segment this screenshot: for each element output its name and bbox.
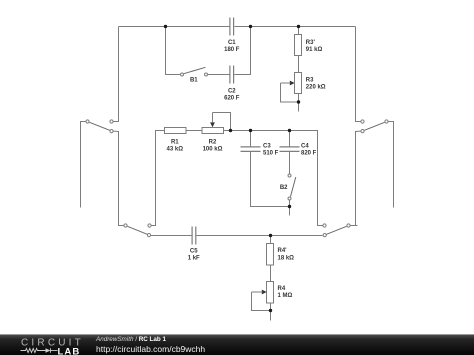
potentiometer R2 [202,113,231,134]
switch B1 [181,67,208,76]
wire bottom rail C5 to right pole [196,235,322,237]
capacitor C3 [241,147,261,152]
wire bottom rail pole to C5 [151,235,192,237]
wire B2 bottom stub [289,200,291,215]
resistor R4' [267,244,274,266]
footer line 2 [96,345,205,354]
wire R4' drop [270,236,272,244]
wire between R4' and R4 [270,265,272,282]
switch B2 [288,174,296,200]
capacitor C2 [230,66,234,84]
wire R4 bottom stub [270,303,272,321]
CircuitLab logo [19,336,85,355]
capacitor C4 [280,147,300,152]
wire top rail left of C1 [119,26,230,28]
label C2 [224,89,240,102]
wire C3 top lead [250,131,252,147]
switch S-lower-right [323,224,350,237]
junction dots [164,25,300,312]
svg-text:R3: R3 [306,77,314,83]
label R4' [278,248,295,261]
capacitor C5 [192,227,196,245]
switch S-upper-right [361,120,388,133]
svg-text:620 F: 620 F [224,96,240,102]
label R1 [167,140,184,153]
node bottom rail / R4' drop [269,234,272,237]
svg-text:R2: R2 [209,140,217,146]
wire between R3' and R3 [298,56,300,73]
node C4 top [288,129,291,132]
label R4 [278,286,293,299]
svg-text:C1: C1 [228,40,236,46]
svg-text:B1: B1 [190,78,198,84]
node R3 wiper junction [297,100,300,103]
svg-text:C4: C4 [301,144,309,150]
svg-text:91 kΩ: 91 kΩ [306,47,323,53]
wire from S-upper-right lower throw down [356,131,361,225]
resistor R3' [295,35,302,56]
svg-text:1 kF: 1 kF [188,256,200,262]
label C3 [263,144,279,157]
wire B1 to C2 [208,74,230,76]
svg-text:LAB: LAB [58,346,81,355]
potentiometer R4 [252,282,274,311]
wire S-lower-right upper throw jog [351,225,356,227]
label C4 [301,144,317,157]
wire C4 to B2 [289,152,291,174]
label C1 [224,40,240,53]
svg-text:43 kΩ: 43 kΩ [167,147,184,153]
svg-text:18 kΩ: 18 kΩ [278,255,295,261]
wire left rail pole to dangling end [81,122,86,208]
svg-text:180 F: 180 F [224,47,240,53]
svg-text:220 kΩ: 220 kΩ [306,84,326,90]
node top rail / C2 riser [249,25,252,28]
svg-text:C2: C2 [228,89,236,95]
footer bar [0,334,474,355]
label R2 [203,140,223,153]
wire left rail down from top [114,27,119,122]
node R2 wiper junction [229,129,232,132]
svg-text:R3': R3' [306,40,316,46]
svg-text:510 F: 510 F [263,151,279,157]
labels [167,40,326,299]
wire R3' drop [298,27,300,35]
wire R2 to right corner [224,131,323,226]
wire top rail right of C1 [235,26,356,28]
svg-text:R4': R4' [278,248,288,254]
wire right rail pole to dangling end [389,122,394,208]
wire B1 drop from top rail [166,27,181,75]
switch S-lower-left [124,224,151,237]
svg-text:R1: R1 [171,140,179,146]
wire R1 to R2 [186,130,202,132]
wire C2 right side up to top rail [234,27,250,75]
wire C4 top lead [289,131,291,147]
svg-text:C5: C5 [190,249,198,255]
resistor R1 [165,128,187,134]
node top rail / B1 drop [164,25,167,28]
node top rail / R3' drop [297,25,300,28]
svg-text:B2: B2 [280,185,288,191]
wire R3 bottom stub [298,94,300,112]
svg-text:R4: R4 [278,286,286,292]
capacitor C1 [230,18,234,36]
svg-text:100 kΩ: 100 kΩ [203,147,223,153]
wire top rail right corner down [356,27,361,122]
node C3 top [249,129,252,132]
wire C3 bottom to B2 bottom junction [251,152,290,207]
wire from S-upper-left lower throw down [114,131,124,225]
label R3' [306,40,323,53]
node R4 wiper junction [269,309,272,312]
svg-text:1 MΩ: 1 MΩ [278,293,293,299]
switch S-upper-left [86,120,113,133]
svg-text:820 F: 820 F [301,151,317,157]
node B2 bottom junction [288,205,291,208]
label R3 [306,77,326,90]
wire R1 left lead and drop [152,131,165,226]
potentiometer R3 [281,73,302,103]
svg-text:C3: C3 [263,144,271,150]
label C5 [188,249,200,262]
footer line 1 [96,336,166,343]
